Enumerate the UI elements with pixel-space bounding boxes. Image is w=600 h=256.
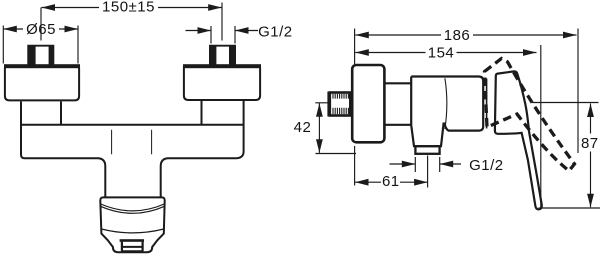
svg-text:150±15: 150±15	[102, 0, 155, 15]
svg-text:G1/2: G1/2	[469, 157, 504, 174]
svg-text:G1/2: G1/2	[258, 24, 293, 41]
svg-text:186: 186	[444, 27, 471, 44]
svg-text:Ø65: Ø65	[26, 21, 56, 38]
svg-text:154: 154	[428, 45, 455, 62]
svg-text:87: 87	[581, 135, 599, 152]
svg-text:61: 61	[382, 173, 400, 190]
svg-text:42: 42	[294, 119, 312, 136]
